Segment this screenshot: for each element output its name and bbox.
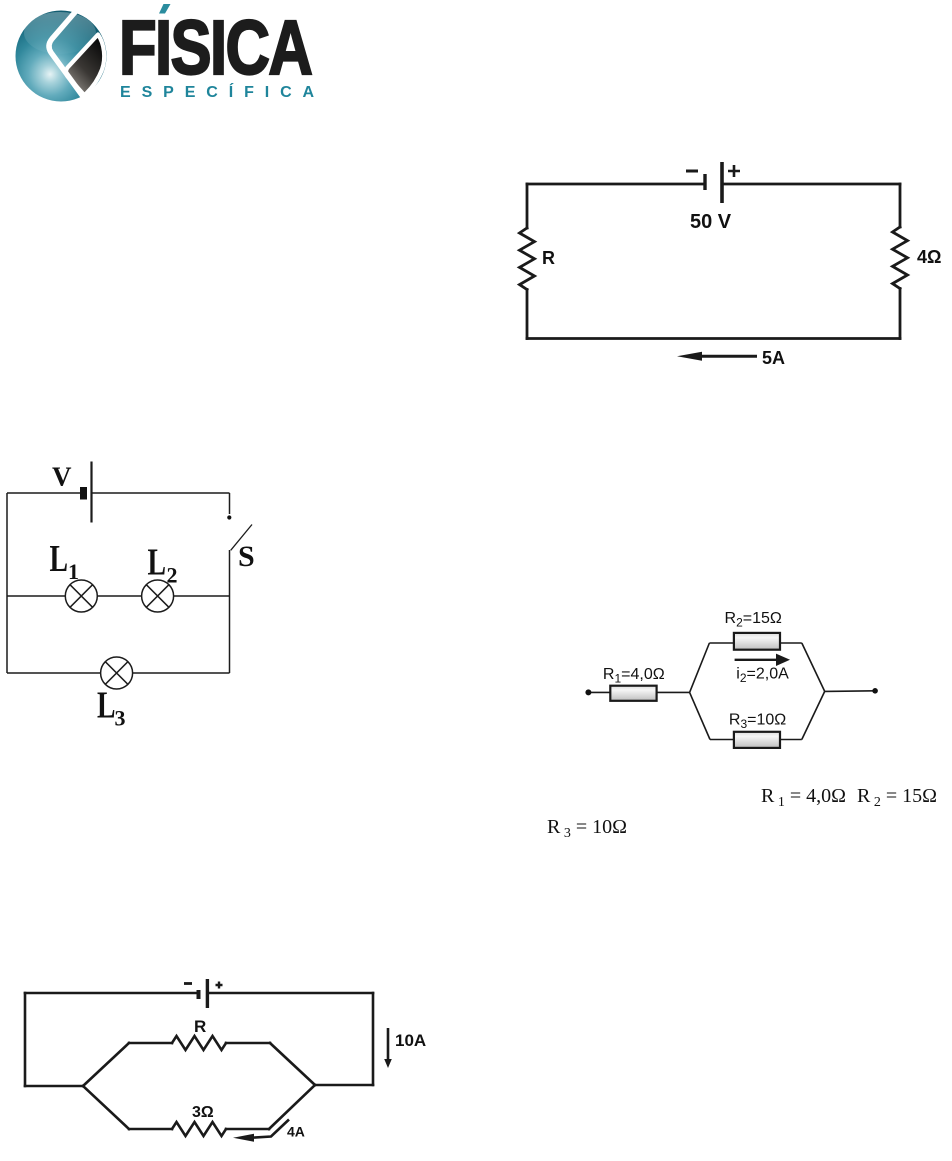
wire right vertical [229, 550, 231, 673]
wire diagonal node A to bottom branch [690, 692, 710, 739]
battery positive plate [206, 979, 209, 1008]
wire node to right vertical [315, 1084, 373, 1087]
switch stub [229, 493, 231, 514]
equation line R1 = 4,0ohm R2 = 15ohm [761, 785, 937, 811]
wire R1 to node A [657, 691, 690, 693]
circuit 3 : R1 series with parallel R2/R3 [580, 600, 890, 760]
wire diagonal node A to top branch [690, 643, 710, 692]
logo subtitle ESPECIFICA [120, 85, 325, 101]
svg-text:10A: 10A [395, 1031, 426, 1050]
wire right lead [825, 690, 875, 693]
svg-text:R: R [542, 248, 555, 268]
battery negative plate [703, 174, 706, 190]
circuit 4 : battery with R parallel 3ohm, 10A and 4A arrows [0, 960, 460, 1161]
current arrow 5A [700, 355, 757, 358]
minus sign [686, 170, 698, 173]
svg-text:i2=2,0A: i2=2,0A [736, 665, 789, 685]
svg-text:1: 1 [68, 559, 79, 584]
sphere gloss highlight [24, 12, 96, 54]
logo accent over I (teal) [155, 4, 177, 20]
wire left vertical [6, 493, 8, 673]
svg-text:R3=10Ω: R3=10Ω [729, 711, 786, 731]
switch blade S [231, 525, 252, 551]
battery negative plate [197, 990, 201, 999]
resistor R zigzag [172, 1036, 226, 1050]
wire diagonal down to 3ohm branch [83, 1086, 129, 1129]
wire diagonal up to R branch [83, 1043, 129, 1086]
wire diagonal top to node B [802, 643, 825, 691]
wire top branch left [709, 642, 734, 644]
wire bottom [7, 672, 230, 674]
svg-text:S: S [238, 540, 255, 573]
battery plate long (pos) [90, 462, 92, 523]
svg-text:4A: 4A [287, 1124, 305, 1140]
resistor 3ohm zigzag [172, 1122, 226, 1136]
wire top-right [92, 492, 230, 494]
wire bottom branch right [780, 739, 802, 741]
sphere body [16, 11, 107, 102]
svg-text:R2=15Ω: R2=15Ω [725, 610, 782, 630]
svg-text:2: 2 [167, 563, 178, 588]
svg-text:R: R [194, 1017, 206, 1036]
current arrow i2 [735, 659, 778, 661]
wire top-right [724, 183, 900, 186]
svg-text:V: V [52, 462, 72, 492]
dark kite shape [66, 35, 104, 96]
wire bottom-left horizontal [25, 1085, 83, 1088]
resistor R1 box [610, 686, 656, 701]
svg-text:L: L [50, 538, 69, 580]
svg-text:L: L [97, 685, 116, 727]
switch contact dot [227, 515, 231, 519]
svg-text:4Ω: 4Ω [917, 247, 941, 267]
terminal dot right [872, 688, 878, 694]
wire top-left [25, 992, 197, 995]
white chevron stripe [49, 11, 83, 97]
wire left vertical [24, 993, 27, 1086]
lamp L3 [101, 657, 133, 689]
wire middle [7, 595, 230, 597]
current arrow 4A left (bent tail) [250, 1120, 289, 1138]
wire R branch left [129, 1042, 172, 1045]
wire left lead [588, 691, 610, 693]
svg-text:3Ω: 3Ω [192, 1104, 214, 1121]
plus sign [216, 982, 223, 989]
wire top-right [210, 992, 373, 995]
wire right vertical upper [899, 184, 902, 227]
wire right vertical lower [899, 289, 902, 339]
lamp L1 [65, 580, 97, 612]
wire left vertical upper [526, 184, 529, 228]
wire right vertical [372, 993, 375, 1085]
battery positive plate [720, 162, 724, 203]
wire 3ohm branch right [226, 1128, 269, 1131]
svg-text:R1=4,0Ω: R1=4,0Ω [603, 666, 665, 686]
plus sign [728, 165, 740, 177]
equation line R3 = 10ohm [547, 816, 627, 842]
circuit 2 : lamps L1 L2 L3 with battery V and switch S [0, 440, 270, 735]
svg-text:L: L [148, 542, 167, 584]
svg-text:3: 3 [115, 706, 126, 731]
resistor R (zigzag) [520, 228, 535, 290]
svg-text:5A: 5A [762, 348, 785, 368]
wire top-left [7, 492, 80, 494]
wire bottom branch left [710, 739, 734, 741]
battery plate thick (neg) [80, 487, 87, 500]
current arrow 10A down [387, 1028, 390, 1060]
svg-text:50 V: 50 V [690, 211, 732, 233]
wire top-left [527, 183, 705, 186]
terminal dot left [585, 689, 591, 695]
wire diagonal bottom to node B [802, 691, 825, 739]
wire 3ohm branch left [129, 1128, 172, 1131]
logo emblem sphere [10, 6, 122, 114]
resistor R2 box [734, 633, 780, 650]
lamp L2 [142, 580, 174, 612]
wire R branch right [226, 1042, 270, 1045]
minus sign [184, 982, 192, 985]
logo wordmark FISICA [119, 10, 311, 87]
resistor 4ohm (zigzag) [893, 227, 908, 289]
wire diagonal up from 3ohm to node [269, 1085, 315, 1129]
wire top branch right [780, 642, 802, 644]
circuit 1 : series circuit 50V battery, R, 4ohm [500, 150, 952, 380]
resistor R3 box [734, 732, 780, 748]
wire diagonal down to node [270, 1043, 315, 1085]
wire left vertical lower [526, 290, 529, 339]
wire bottom [527, 337, 900, 340]
